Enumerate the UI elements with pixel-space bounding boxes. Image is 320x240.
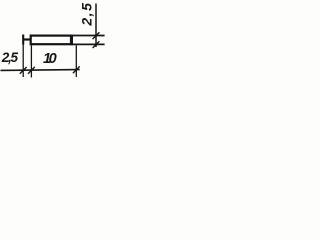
extension line right of body <box>75 45 77 77</box>
extension line left (from tick) <box>22 45 24 77</box>
svg-text:2,5: 2,5 <box>1 50 19 65</box>
slash terminator bottom <box>93 41 100 48</box>
extension line bottom right <box>73 43 105 45</box>
svg-text:2,5: 2,5 <box>79 2 95 27</box>
slash terminator bottom-left dim <box>20 67 27 74</box>
body right edge (thick) <box>70 35 73 46</box>
slash terminator at body-left extension <box>28 67 35 74</box>
end tick plate <box>22 35 24 45</box>
dimension line horizontal bottom <box>1 69 80 72</box>
lead wire <box>24 38 31 40</box>
body rectangle <box>31 36 72 45</box>
slash terminator at right extension <box>73 66 80 73</box>
extension line top right <box>73 35 105 37</box>
dimension line vertical 2,5 <box>95 4 97 48</box>
slash terminator top <box>93 32 100 39</box>
svg-text:10: 10 <box>43 51 57 67</box>
extension line from body left edge <box>30 45 32 77</box>
